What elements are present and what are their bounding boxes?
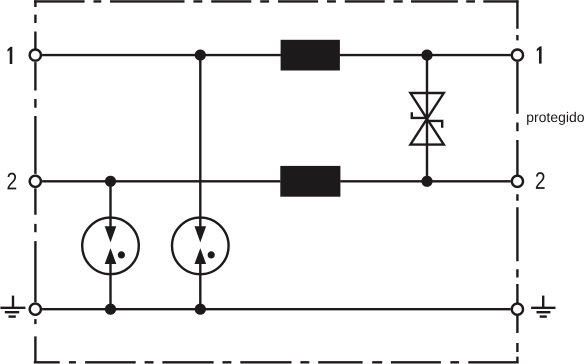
dashed enclosure border bottom <box>34 361 519 363</box>
junction bus/GDT2 <box>195 304 206 315</box>
wire line 1 right segment <box>340 54 511 56</box>
gas discharge tube F1 <box>82 218 139 275</box>
inductor L1 <box>281 40 340 71</box>
junction line2/GDT1 <box>105 176 116 187</box>
TVS suppressor diode V1 <box>410 93 443 145</box>
gas discharge tube F2 <box>172 218 229 275</box>
wire GDT F1 branch lower (tube to earth bus) <box>109 264 111 310</box>
junction line1/GDT2 <box>195 50 206 61</box>
terminal 2 left <box>30 176 41 187</box>
junction line1/TVS <box>421 50 432 61</box>
wire GDT F2 branch upper (from line 1 crossing line 2) <box>199 55 201 227</box>
pin label 2 right <box>536 172 545 189</box>
wire line 2 right segment <box>341 180 511 182</box>
junction bus/GDT1 <box>105 304 116 315</box>
wire earth bus <box>42 308 511 310</box>
pin label 1 left <box>8 47 13 64</box>
terminal 1 left <box>30 50 41 61</box>
ground symbol left <box>0 296 25 317</box>
terminal earth right <box>512 304 523 315</box>
wire line 1 left segment <box>42 54 281 56</box>
terminal earth left <box>30 304 41 315</box>
wire line 2 left segment <box>42 180 280 182</box>
terminal 2 right <box>512 176 523 187</box>
dashed enclosure border top <box>34 0 519 2</box>
terminal 1 right <box>512 50 523 61</box>
pin label 2 left <box>7 173 16 190</box>
wire GDT F1 branch upper (from line 2 to tube) <box>109 181 111 227</box>
wire TVS branch (line 1 to line 2) <box>426 55 428 181</box>
junction line2/TVS <box>421 176 432 187</box>
dashed enclosure border right <box>516 0 518 363</box>
ground symbol right <box>531 296 555 317</box>
wire GDT F2 branch lower (tube to earth bus) <box>199 264 201 310</box>
dashed enclosure border left <box>34 0 36 363</box>
inductor L2 <box>280 166 340 197</box>
pin label 1 right <box>537 46 542 63</box>
net label protegido <box>527 112 584 125</box>
